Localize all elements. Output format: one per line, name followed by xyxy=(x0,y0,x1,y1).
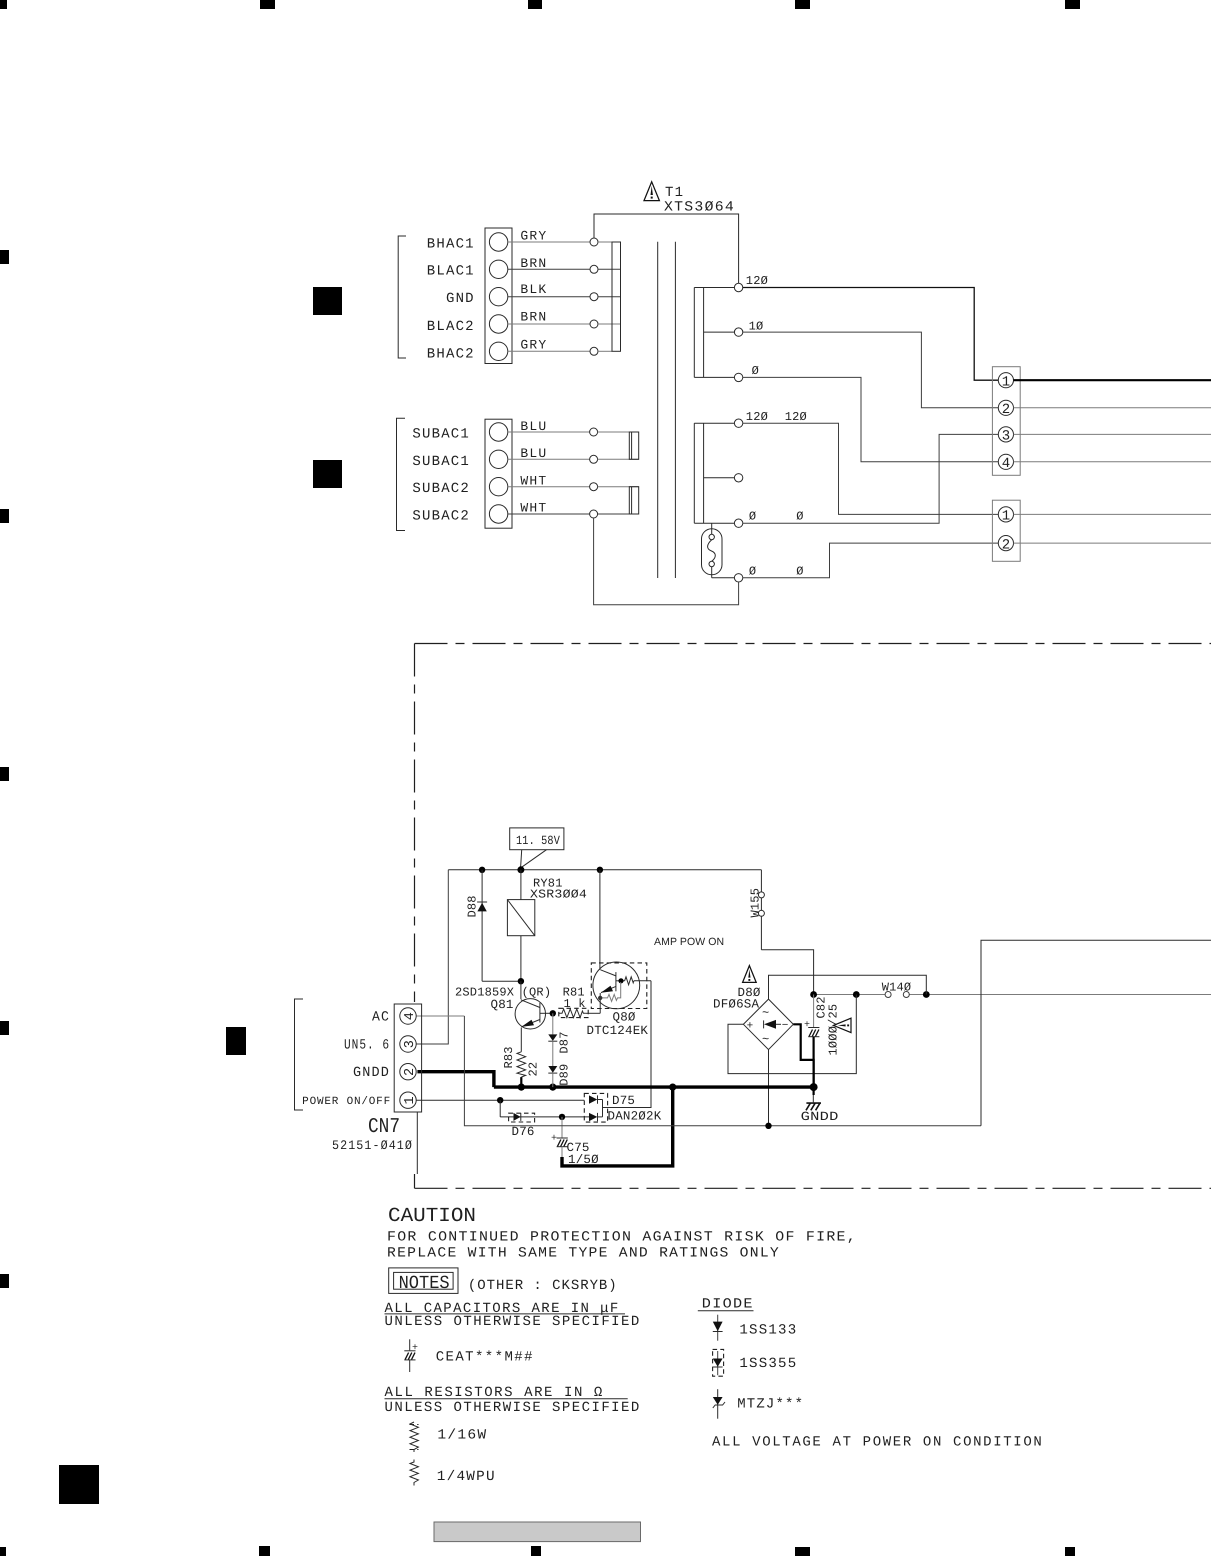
svg-text:W14Ø: W14Ø xyxy=(882,981,912,995)
svg-text:D88: D88 xyxy=(466,895,480,917)
diode D88 xyxy=(466,870,521,981)
winding SUBAC1 bus xyxy=(629,432,638,459)
wire BLU (SUBAC1 row1) xyxy=(508,419,639,436)
svg-text:GND: GND xyxy=(446,291,475,307)
svg-text:XTS3Ø64: XTS3Ø64 xyxy=(664,200,735,216)
svg-text:3: 3 xyxy=(403,1040,418,1048)
wire CN pin3 out xyxy=(1014,433,1211,435)
diode D75 (DAN202K) xyxy=(584,1093,661,1123)
svg-text:Q8Ø: Q8Ø xyxy=(613,1010,636,1024)
svg-text:1: 1 xyxy=(1002,374,1010,390)
connector SUBAC plug xyxy=(485,419,512,528)
svg-text:CN7: CN7 xyxy=(368,1116,400,1139)
PCB boundary (dashed) xyxy=(415,644,1211,1189)
svg-text:52151-Ø41Ø: 52151-Ø41Ø xyxy=(332,1138,413,1153)
diode D87 xyxy=(548,1013,571,1053)
svg-text:ALL VOLTAGE AT POWER ON CONDIT: ALL VOLTAGE AT POWER ON CONDITION xyxy=(712,1435,1043,1451)
svg-text:CAUTION: CAUTION xyxy=(388,1205,476,1228)
connector CN upper (pins 1-4) xyxy=(992,367,1020,476)
resistor symbol 1/4WPU xyxy=(410,1460,496,1486)
connector CN7 xyxy=(332,1004,422,1174)
wire AC from CN7 pin4 xyxy=(416,1016,981,1129)
warning triangle (D80) xyxy=(743,966,757,983)
wire tap10 to CN pin2 xyxy=(743,332,999,408)
winding T1 secondary 2 xyxy=(694,423,734,523)
svg-text:12Ø: 12Ø xyxy=(746,410,768,424)
svg-text:D87: D87 xyxy=(558,1031,572,1053)
thermal fuse (T1) xyxy=(702,523,723,578)
wire BLU (SUBAC1 row2) xyxy=(508,446,639,463)
bracket (BHAC labels) xyxy=(398,236,406,358)
svg-text:~: ~ xyxy=(762,1006,769,1020)
bridge rectifier D80 xyxy=(713,986,793,1050)
svg-text:R83: R83 xyxy=(502,1046,516,1068)
svg-text:(OTHER : CKSRYB): (OTHER : CKSRYB) xyxy=(468,1278,618,1294)
wire CN2 pin1 out xyxy=(1014,513,1211,515)
svg-text:GRY: GRY xyxy=(520,229,547,244)
wire top supply bus xyxy=(448,866,761,873)
bracket (SUBAC labels) xyxy=(397,418,406,530)
svg-text:+: + xyxy=(551,1134,557,1145)
capacitor C82 xyxy=(804,995,841,1096)
wire BHAC1 to T1 top xyxy=(594,214,739,283)
winding SUBAC2 bus xyxy=(629,487,638,514)
wire sec2-120 to CN2 pin1 xyxy=(743,423,999,514)
wire C75 return (thick) xyxy=(562,1087,673,1166)
svg-text:POWER ON/OFF: POWER ON/OFF xyxy=(302,1096,391,1108)
svg-text:+: + xyxy=(804,1020,810,1031)
svg-text:UNLESS OTHERWISE SPECIFIED: UNLESS OTHERWISE SPECIFIED xyxy=(385,1400,641,1416)
svg-text:1: 1 xyxy=(403,1096,418,1104)
bracket (CN7 labels) xyxy=(295,999,304,1110)
svg-text:DAN2Ø2K: DAN2Ø2K xyxy=(608,1110,662,1124)
node tap 10 (sec1) xyxy=(734,320,763,337)
svg-text:GRY: GRY xyxy=(520,338,547,353)
voltage callout 11.58V xyxy=(510,828,564,867)
svg-text:4: 4 xyxy=(403,1012,418,1020)
svg-text:BLU: BLU xyxy=(520,446,547,461)
ground GNDD xyxy=(801,1095,839,1124)
svg-text:WHT: WHT xyxy=(520,473,547,488)
svg-text:REPLACE WITH SAME TYPE AND RAT: REPLACE WITH SAME TYPE AND RATINGS ONLY xyxy=(387,1245,780,1261)
transistor Q81 xyxy=(455,981,556,1052)
svg-text:1: 1 xyxy=(1002,509,1010,525)
node tap 0 (fuse row) xyxy=(712,564,804,582)
svg-text:+: + xyxy=(747,1021,754,1033)
wire CN7 pin1 POWER ON/OFF row xyxy=(416,1097,584,1117)
svg-text:Ø: Ø xyxy=(749,564,756,578)
wire GNDD bus (thick) xyxy=(494,1083,818,1091)
capacitors note xyxy=(385,1301,641,1330)
svg-text:2: 2 xyxy=(1002,537,1010,553)
wire SUBAC2 return to fuse row xyxy=(594,518,739,605)
svg-text:W155: W155 xyxy=(749,888,763,918)
diode D76 xyxy=(500,1113,589,1139)
svg-text:UNLESS OTHERWISE SPECIFIED: UNLESS OTHERWISE SPECIFIED xyxy=(385,1314,641,1330)
wire bridge bottom AC xyxy=(768,1050,770,1126)
wire CN pin2 out xyxy=(1014,407,1211,409)
svg-text:BRN: BRN xyxy=(520,256,547,271)
wire bus to UN5.6 (CN7 pin3) xyxy=(416,870,448,1044)
jumper W140 xyxy=(882,981,912,998)
wire GRY (BHAC2 row) xyxy=(508,338,612,356)
svg-text:SUBAC1: SUBAC1 xyxy=(412,454,470,470)
wire AMP POW ON out xyxy=(981,940,1211,1126)
diode note heading xyxy=(698,1297,754,1313)
svg-text:AC: AC xyxy=(372,1010,390,1026)
svg-text:WHT: WHT xyxy=(520,501,547,516)
node tap mid (sec2) xyxy=(734,474,742,482)
resistor R83 xyxy=(502,1046,541,1087)
footer gray box xyxy=(434,1522,641,1542)
svg-text:DIODE: DIODE xyxy=(702,1297,754,1313)
winding T1 primary bus xyxy=(612,242,621,351)
wire BRN (BLAC1 row) xyxy=(508,256,621,274)
caution text xyxy=(387,1229,857,1261)
svg-text:Ø: Ø xyxy=(752,364,759,378)
diode symbol 1SS355 xyxy=(713,1349,798,1376)
svg-text:2: 2 xyxy=(403,1068,418,1076)
svg-text:GNDD: GNDD xyxy=(801,1110,839,1124)
wire sec2-0 to CN pin3 xyxy=(743,434,999,523)
svg-text:D75: D75 xyxy=(612,1094,635,1108)
diode symbol MTZJ (zener) xyxy=(713,1389,804,1419)
svg-text:1SS133: 1SS133 xyxy=(739,1323,797,1339)
svg-text:DTC124EK: DTC124EK xyxy=(587,1024,649,1038)
wire CN2 pin2 out xyxy=(1014,542,1211,544)
wire fuse row to CN2 pin2 xyxy=(743,543,999,578)
svg-text:MTZJ***: MTZJ*** xyxy=(737,1397,804,1413)
diode symbol 1SS133 xyxy=(713,1315,798,1341)
svg-text:AMP POW ON: AMP POW ON xyxy=(654,936,724,948)
svg-text:~: ~ xyxy=(762,1033,769,1047)
svg-text:SUBAC1: SUBAC1 xyxy=(412,427,470,443)
wire GRY (BHAC1 row) xyxy=(508,229,612,247)
svg-text:BLAC2: BLAC2 xyxy=(427,319,475,335)
connector BHAC/BLAC (primary plug) xyxy=(485,228,512,364)
capacitor C75 xyxy=(551,1117,599,1167)
svg-text:3: 3 xyxy=(1002,429,1010,445)
svg-text:XSR3ØØ4: XSR3ØØ4 xyxy=(530,888,587,902)
svg-text:1/4WPU: 1/4WPU xyxy=(437,1469,496,1485)
svg-text:SUBAC2: SUBAC2 xyxy=(412,481,470,497)
wire bridge top AC xyxy=(769,975,927,999)
svg-text:UN5. 6: UN5. 6 xyxy=(344,1038,390,1054)
svg-text:DFØ6SA: DFØ6SA xyxy=(713,998,760,1012)
wire W140 node row xyxy=(810,991,1211,998)
wire WHT (SUBAC2 row1) xyxy=(508,473,639,490)
svg-text:CEAT***M##: CEAT***M## xyxy=(436,1349,534,1365)
node tap 120 (sec1) xyxy=(734,274,768,292)
warning triangle (T1) xyxy=(644,182,659,201)
node tap 0 (sec2) xyxy=(734,510,803,528)
transformer T1 core xyxy=(658,242,676,578)
svg-text:Q81: Q81 xyxy=(491,998,514,1012)
svg-text:2: 2 xyxy=(1002,402,1010,418)
node tap 120 (sec2) xyxy=(734,410,807,428)
svg-text:BHAC2: BHAC2 xyxy=(427,347,475,363)
svg-text:12Ø: 12Ø xyxy=(746,274,768,288)
wire tap0 to CN pin4 xyxy=(743,377,999,461)
wire BRN (BLAC2 row) xyxy=(508,310,621,329)
diode D89 xyxy=(548,1041,571,1087)
svg-text:1SS355: 1SS355 xyxy=(739,1356,797,1372)
svg-text:BRN: BRN xyxy=(520,310,547,325)
svg-text:NOTES: NOTES xyxy=(399,1273,450,1294)
svg-text:22: 22 xyxy=(527,1062,541,1077)
wire Q80 base to D75 cathode xyxy=(603,981,652,1108)
svg-text:D89: D89 xyxy=(558,1064,572,1086)
wire CN pin1 out xyxy=(1014,379,1211,381)
wire WHT (SUBAC2 row2) xyxy=(508,501,639,518)
resistor symbol 1/16W xyxy=(410,1422,488,1452)
wire CN7 pin2 GNDD (thick) xyxy=(417,1072,494,1087)
svg-text:BHAC1: BHAC1 xyxy=(427,237,475,253)
svg-text:+: + xyxy=(412,1343,418,1354)
capacitor symbol CEAT xyxy=(404,1339,533,1372)
svg-text:1Ø: 1Ø xyxy=(749,320,764,334)
svg-text:Ø: Ø xyxy=(796,564,803,578)
transistor Q80 xyxy=(587,870,652,1038)
transformer T1 label xyxy=(664,185,735,216)
svg-text:1/16W: 1/16W xyxy=(437,1428,487,1444)
svg-text:−: − xyxy=(782,1020,789,1032)
svg-text:GNDD: GNDD xyxy=(353,1065,390,1081)
svg-text:SUBAC2: SUBAC2 xyxy=(412,509,470,525)
connector CN lower (pins 1-2) xyxy=(992,500,1020,561)
relay RY81 xyxy=(507,870,587,985)
svg-text:4: 4 xyxy=(1002,456,1010,472)
svg-text:BLAC1: BLAC1 xyxy=(427,264,475,280)
svg-text:1ØØØ/25: 1ØØØ/25 xyxy=(827,1004,841,1056)
svg-text:FOR CONTINUED PROTECTION AGAIN: FOR CONTINUED PROTECTION AGAINST RISK OF… xyxy=(387,1229,857,1245)
wire bridge + output loop xyxy=(728,995,856,1074)
svg-text:Ø: Ø xyxy=(796,510,803,524)
svg-text:D76: D76 xyxy=(512,1125,535,1139)
resistors note xyxy=(385,1385,641,1416)
wire tap120 to CN pin1 xyxy=(743,288,999,381)
resistor R81 xyxy=(559,986,600,1018)
node tap 0 (sec1) xyxy=(734,364,759,382)
notes box xyxy=(389,1268,458,1294)
jumper W155 xyxy=(749,870,814,995)
svg-text:12Ø: 12Ø xyxy=(785,410,807,424)
warning triangle (C82) xyxy=(833,1018,851,1032)
wire BLK (GND row) xyxy=(508,282,621,301)
svg-text:Ø: Ø xyxy=(749,510,756,524)
svg-text:1 k: 1 k xyxy=(564,997,586,1011)
winding T1 secondary 1 xyxy=(694,288,734,378)
wire CN pin4 out xyxy=(1014,461,1211,463)
wire bridge - to ground xyxy=(793,1024,813,1087)
svg-text:BLK: BLK xyxy=(520,282,547,297)
svg-text:11. 58V: 11. 58V xyxy=(516,834,560,848)
